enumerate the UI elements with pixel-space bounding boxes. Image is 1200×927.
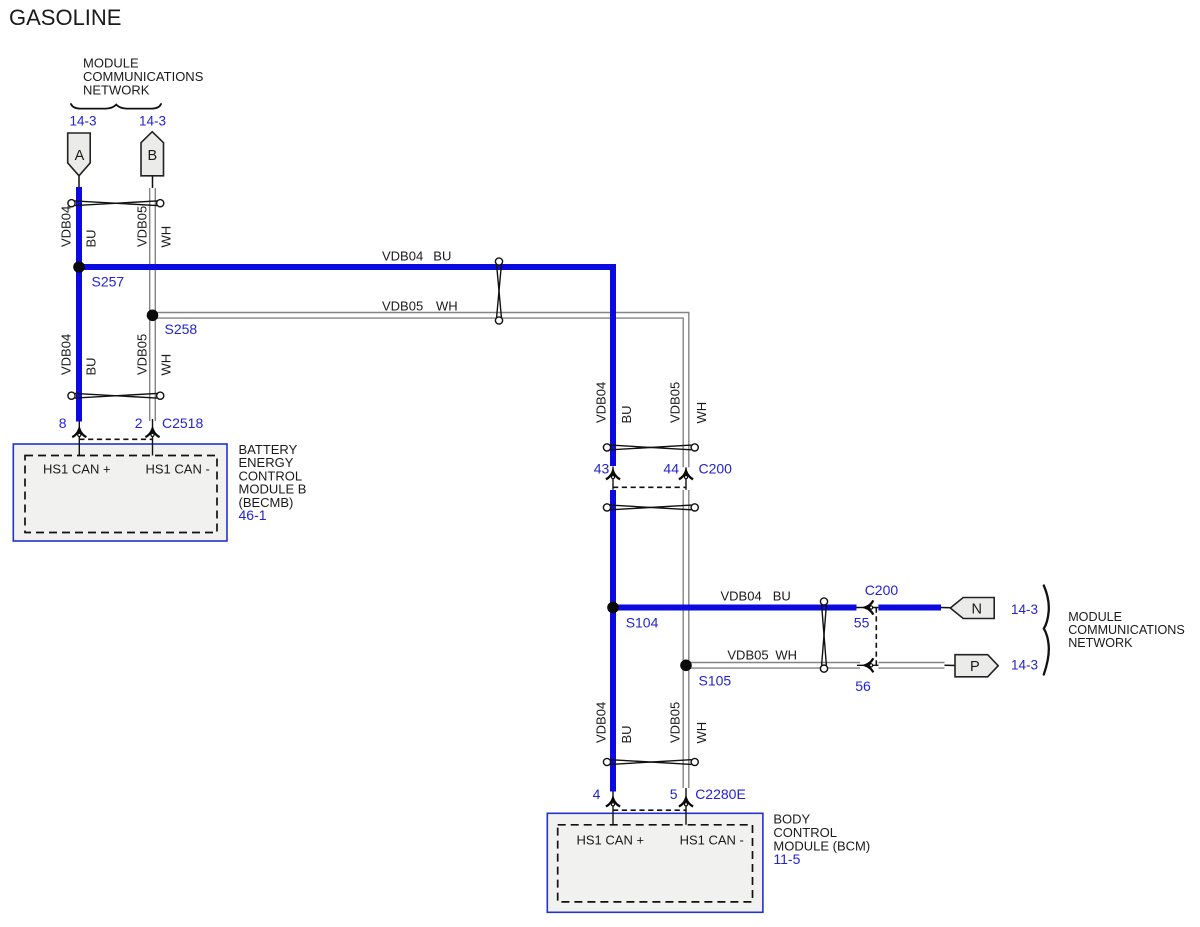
svg-text:VDB05: VDB05 [668,702,683,743]
svg-text:55: 55 [854,615,870,631]
pin arrow 43 [606,471,620,480]
wire VDB04 BU from S257 right and down to C200 pin 43 [79,267,613,466]
connector C200 (55/56) stems [857,607,879,609]
svg-text:VDB05: VDB05 [135,334,150,375]
pin arrow 4 [606,798,620,807]
wire VDB04 BU horizontal S104 to C200-55 [610,605,857,611]
connector A (off-page, down) [68,133,91,176]
stub to N [941,607,951,609]
svg-text:NETWORK: NETWORK [83,83,150,98]
splice S258 [147,310,159,322]
dashed link C2280E [613,809,686,811]
svg-text:HS1 CAN -: HS1 CAN - [680,832,744,847]
svg-text:BU: BU [84,229,99,247]
svg-text:P: P [970,659,980,675]
svg-text:WH: WH [159,226,174,248]
svg-text:VDB05: VDB05 [727,648,768,663]
connector C200 (43/44) stems [612,467,614,490]
connector C2280E stems [612,792,614,825]
splice S105 [680,660,692,672]
svg-text:5: 5 [670,786,678,802]
svg-text:BU: BU [433,248,451,263]
svg-text:BU: BU [619,405,634,423]
connector P (off-page) [955,655,998,677]
connector N (off-page) [950,598,994,619]
svg-text:S258: S258 [165,321,198,337]
svg-text:4: 4 [593,786,601,802]
svg-text:43: 43 [594,460,610,476]
pin arrow 2 [145,428,159,437]
stub from B [152,176,154,189]
svg-text:S104: S104 [626,615,659,631]
svg-text:S257: S257 [92,274,125,290]
svg-text:BU: BU [619,725,634,743]
wire VDB04 BU vertical left (A to C2518 pin 8) [76,187,82,422]
svg-text:VDB04: VDB04 [721,589,762,604]
wire VDB05 WH vertical mid (C200 to S105 to C2280E) [683,490,690,788]
dashed link C2518 [79,438,152,440]
svg-text:C200: C200 [865,582,899,598]
svg-text:56: 56 [855,678,871,694]
svg-text:14-3: 14-3 [139,113,166,128]
twisted pair symbol above C200 pins 43/44 [603,444,698,451]
svg-text:11-5: 11-5 [773,851,800,867]
svg-text:BU: BU [84,357,99,375]
stub to P [945,664,957,666]
svg-text:B: B [147,148,157,164]
pin arrow 44 [679,471,693,480]
svg-text:VDB04: VDB04 [594,382,609,423]
dashed link C200 right [875,608,877,666]
svg-text:WH: WH [694,722,709,744]
svg-text:WH: WH [436,298,458,313]
wire VDB05 WH horizontal from S258 to right drop [153,315,687,467]
twisted pair symbol top (A/B wires) [68,200,164,207]
svg-text:VDB04: VDB04 [59,334,74,375]
twisted pair symbol vertical near C200 55/56 [820,598,827,672]
wire VDB05 WH vertical left (white double line) [149,188,156,421]
module BCM box [547,813,763,912]
svg-text:14-3: 14-3 [1011,602,1038,617]
svg-text:C2280E: C2280E [695,786,746,802]
svg-text:2: 2 [135,415,143,431]
svg-text:VDB05: VDB05 [668,382,683,423]
svg-text:44: 44 [663,460,679,476]
svg-text:HS1 CAN +: HS1 CAN + [577,832,645,847]
svg-text:HS1 CAN +: HS1 CAN + [43,462,111,477]
wire VDB04 BU vertical mid (C200 to S104 to C2280E pin 4) [610,490,616,792]
wire VDB05 WH horizontal C200 to P [878,662,944,669]
twisted pair symbol vertical between horizontal runs [495,258,502,324]
svg-text:NETWORK: NETWORK [1068,636,1133,650]
connector C2518 pin stems [78,422,80,456]
brace right [1044,586,1049,675]
svg-text:C200: C200 [699,460,733,476]
svg-text:VDB04: VDB04 [594,702,609,743]
svg-text:HS1 CAN -: HS1 CAN - [146,462,210,477]
pin arrow 5 [679,798,693,807]
svg-text:8: 8 [59,415,67,431]
svg-text:WH: WH [775,648,797,663]
pin arrow 56 [865,658,874,672]
brace top [71,104,161,109]
svg-text:14-3: 14-3 [1011,658,1038,673]
svg-text:MODULE: MODULE [1068,610,1122,624]
svg-text:VDB04: VDB04 [382,248,423,263]
pin arrow 8 [72,428,86,437]
svg-text:VDB05: VDB05 [135,206,150,247]
svg-text:14-3: 14-3 [70,113,97,128]
twisted pair symbol left above C2518 [68,392,164,399]
splice S104 [607,602,619,614]
wire VDB04 BU horizontal C200 to N [878,605,941,611]
svg-text:N: N [972,601,982,617]
svg-text:BU: BU [773,589,791,604]
svg-text:VDB04: VDB04 [59,206,74,247]
dashed link C200 [613,486,686,488]
splice S257 [73,261,85,273]
svg-text:S105: S105 [699,672,732,688]
module BECMB box [13,444,227,541]
stub from A [78,176,80,188]
svg-text:COMMUNICATIONS: COMMUNICATIONS [1068,623,1185,637]
twisted pair symbol below C200 pins 43/44 [603,504,698,511]
svg-text:C2518: C2518 [162,415,203,431]
wire VDB05 WH horizontal from S105 to C200-56 [683,662,861,669]
pin arrow 55 [865,600,874,614]
twisted pair symbol above C2280E [603,758,698,765]
svg-text:GASOLINE: GASOLINE [9,5,121,30]
svg-text:WH: WH [159,354,174,376]
svg-text:VDB05: VDB05 [382,298,423,313]
connector B (off-page, up) [141,132,164,176]
svg-text:46-1: 46-1 [239,507,267,523]
svg-text:WH: WH [694,402,709,424]
svg-text:A: A [75,148,85,164]
